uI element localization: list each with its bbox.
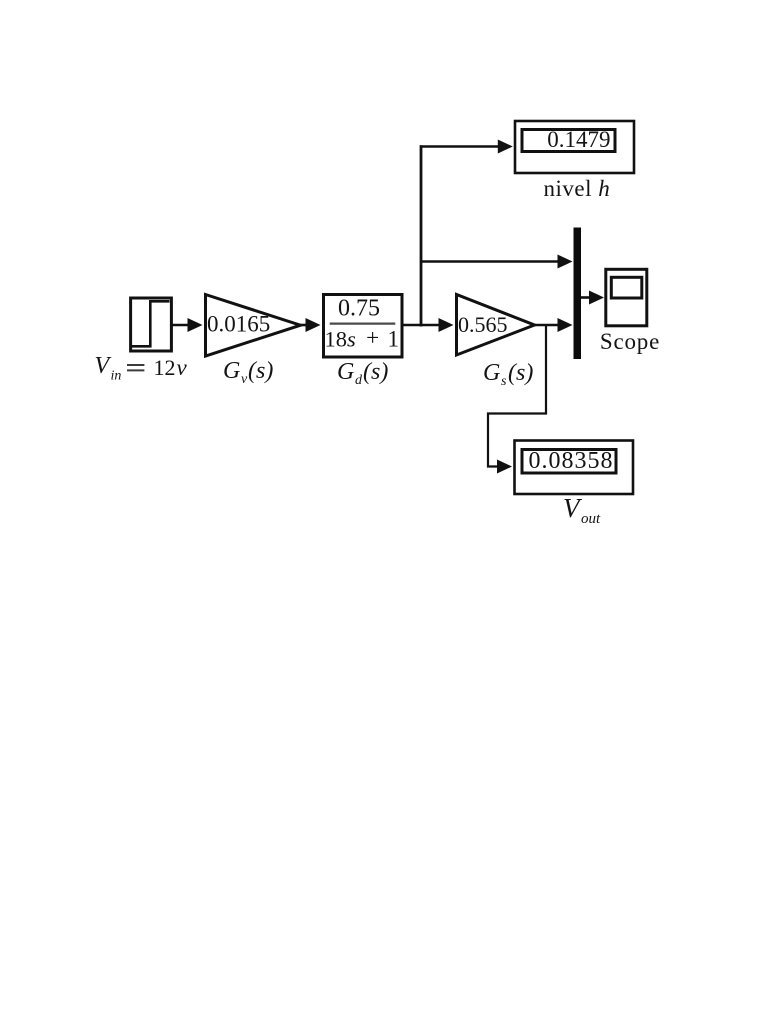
label Vin = 12v (95, 353, 188, 384)
svg-text:(s): (s) (363, 359, 388, 385)
svg-text:(s): (s) (248, 358, 273, 384)
wire Gs junction down to Vout display (488, 326, 546, 474)
wire step to Gv (171, 318, 203, 332)
wire Gd to Gs with branch junction (402, 318, 454, 332)
gain Gs triangle 0.565 (457, 295, 535, 356)
svg-text:V: V (95, 353, 112, 379)
svg-text:(s): (s) (508, 360, 533, 386)
svg-text:s: s (501, 374, 507, 389)
wire branch to nivel h display (420, 140, 513, 154)
svg-text:v: v (177, 355, 188, 380)
wire Gv to Gd (300, 318, 321, 332)
svg-text:v: v (241, 372, 248, 387)
svg-text:G: G (337, 359, 354, 385)
wire Gs to mux input 2 with junction (534, 318, 573, 332)
svg-text:+: + (366, 325, 379, 350)
display block Vout 0.08358 (515, 441, 634, 495)
mux bar (574, 228, 582, 360)
svg-text:Scope: Scope (600, 329, 660, 354)
svg-text:in: in (111, 369, 122, 384)
svg-text:nivel h: nivel h (544, 176, 611, 201)
display block nivel h 0.1479 (515, 121, 634, 173)
label Gs(s) (483, 360, 533, 389)
svg-text:0.75: 0.75 (338, 296, 380, 322)
svg-text:18s: 18s (325, 326, 357, 351)
svg-text:d: d (355, 373, 363, 388)
svg-text:1: 1 (388, 326, 400, 351)
label nivel h (544, 176, 611, 201)
transfer function block Gd 0.75/(18s+1) (324, 295, 403, 358)
label Gd(s) (337, 359, 388, 388)
svg-text:0.1479: 0.1479 (547, 127, 610, 152)
wire vertical branch up from junction (420, 145, 423, 326)
svg-text:G: G (223, 358, 240, 384)
label Scope (600, 329, 660, 354)
svg-text:12: 12 (154, 355, 176, 380)
scope block (606, 269, 647, 326)
svg-text:G: G (483, 360, 500, 386)
svg-text:out: out (581, 511, 601, 527)
svg-text:0.08358: 0.08358 (529, 448, 614, 474)
wire mux to scope (581, 291, 604, 305)
wire branch to mux input 1 (420, 255, 573, 269)
svg-text:0.565: 0.565 (458, 312, 508, 337)
svg-text:0.0165: 0.0165 (207, 312, 270, 337)
step source block Vin (131, 298, 172, 351)
gain Gv triangle 0.0165 (206, 295, 301, 357)
label Gv(s) (223, 358, 273, 387)
label Vout (563, 493, 601, 527)
